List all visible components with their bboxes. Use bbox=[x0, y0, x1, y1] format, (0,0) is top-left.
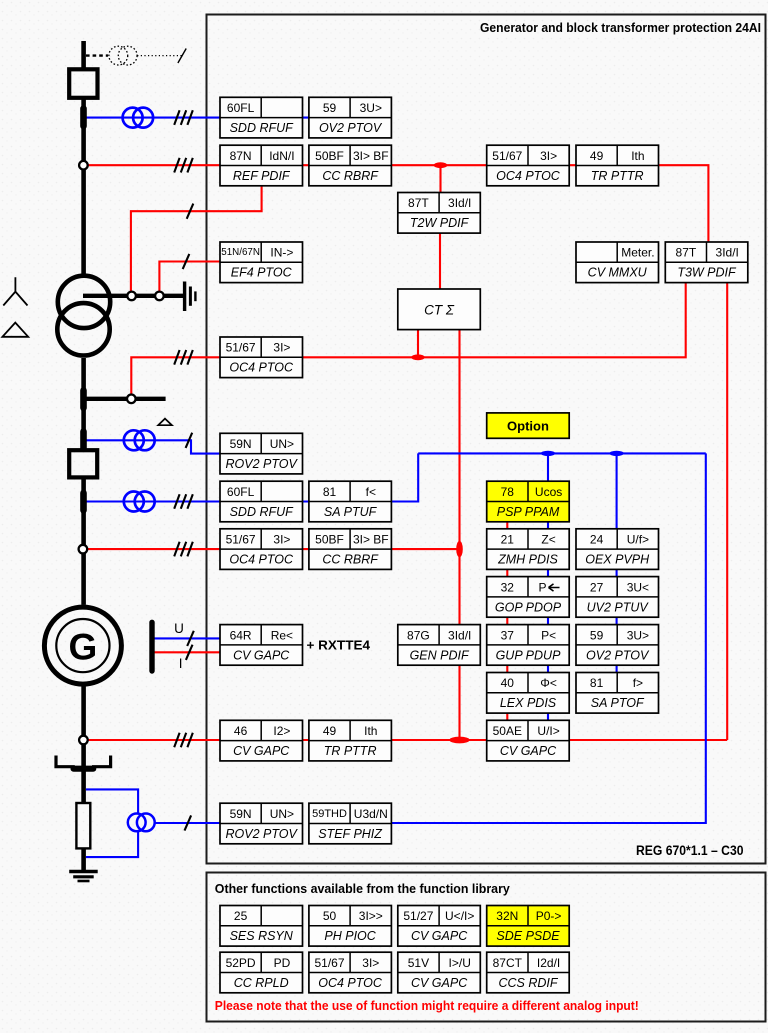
svg-text:50: 50 bbox=[323, 909, 337, 923]
svg-text:49: 49 bbox=[590, 149, 604, 163]
svg-text:TR PTTR: TR PTTR bbox=[591, 169, 644, 183]
svg-text:Z<: Z< bbox=[541, 533, 555, 547]
svg-text:UV2 PTUV: UV2 PTUV bbox=[587, 600, 650, 614]
svg-text:SES RSYN: SES RSYN bbox=[230, 929, 294, 943]
svg-text:U</I>: U</I> bbox=[445, 909, 474, 923]
function box 59 OV2 PTOV (top) bbox=[309, 97, 392, 138]
function box 50BF CC RBRF (top) bbox=[309, 145, 392, 186]
svg-text:CC RBRF: CC RBRF bbox=[322, 553, 379, 567]
svg-text:SA PTOF: SA PTOF bbox=[591, 696, 645, 710]
svg-text:3I>: 3I> bbox=[273, 341, 290, 355]
svg-text:IdN/I: IdN/I bbox=[269, 149, 294, 163]
svg-text:Generator and block transforme: Generator and block transformer protecti… bbox=[480, 21, 761, 35]
svg-text:OV2 PTOV: OV2 PTOV bbox=[586, 648, 650, 662]
svg-text:OC4 PTOC: OC4 PTOC bbox=[229, 553, 294, 567]
CT mark top bbox=[80, 109, 87, 126]
svg-text:EF4 PTOC: EF4 PTOC bbox=[231, 266, 293, 280]
junction 46 row bbox=[449, 737, 469, 744]
function box 37 GUP PDUP bbox=[487, 625, 570, 666]
svg-text:3I> BF: 3I> BF bbox=[353, 149, 389, 163]
svg-text:Ith: Ith bbox=[631, 149, 644, 163]
svg-text:CV GAPC: CV GAPC bbox=[233, 744, 290, 758]
svg-text:ROV2 PTOV: ROV2 PTOV bbox=[226, 827, 299, 841]
function box 50AE CV GAPC bbox=[487, 720, 570, 761]
function box 21 ZMH PDIS bbox=[487, 529, 570, 570]
svg-text:40: 40 bbox=[501, 676, 515, 690]
wire EF4 PTOC to neutral node bbox=[159, 262, 220, 293]
wire option horizontal bus bbox=[418, 452, 706, 454]
svg-text:78: 78 bbox=[501, 485, 515, 499]
wire T3W right output down bbox=[726, 281, 728, 741]
function box 81 SA PTOF bbox=[576, 673, 659, 714]
function box 32 GOP PDOP bbox=[487, 577, 570, 618]
svg-text:REG 670*1.1 – C30: REG 670*1.1 – C30 bbox=[636, 843, 744, 858]
phase mark 59N bbox=[186, 433, 193, 448]
junction 87N row bbox=[434, 162, 448, 168]
wye winding symbol bbox=[3, 277, 27, 305]
transformer T1 bbox=[57, 276, 110, 356]
function box 59 OV2 PTOV (gen) bbox=[576, 625, 659, 666]
disconnector slash bbox=[178, 49, 186, 64]
svg-text:27: 27 bbox=[590, 580, 604, 594]
svg-text:3U<: 3U< bbox=[627, 580, 649, 594]
wire SDD RFUF row to option bus bbox=[84, 453, 418, 501]
CT circles 59N bbox=[124, 430, 155, 450]
svg-text:51/67: 51/67 bbox=[492, 149, 522, 163]
svg-text:87N: 87N bbox=[230, 149, 252, 163]
function box 78 PSP PPAM bbox=[487, 481, 570, 522]
node neutral left bbox=[127, 292, 136, 301]
svg-text:CC RBRF: CC RBRF bbox=[322, 169, 379, 183]
function box 27 UV2 PTUV bbox=[576, 577, 659, 618]
svg-text:I: I bbox=[179, 656, 183, 671]
svg-text:46: 46 bbox=[234, 724, 248, 738]
dotted CT circles bbox=[109, 46, 137, 65]
svg-text:81: 81 bbox=[590, 676, 604, 690]
phase marks generator OC4 row bbox=[174, 542, 193, 557]
function box 49 TR PTTR (HV) bbox=[576, 145, 659, 186]
library title bbox=[215, 881, 511, 896]
function box 51/67 OC4 PTOC (HV) bbox=[487, 145, 570, 186]
svg-text:59: 59 bbox=[323, 101, 337, 115]
function box 87N REF PDIF bbox=[220, 145, 303, 186]
junction LV row bbox=[411, 354, 425, 360]
wire PSP PPAM column blue bbox=[547, 453, 549, 739]
svg-text:CC RPLD: CC RPLD bbox=[234, 976, 289, 990]
function box 40 LEX PDIS bbox=[487, 673, 570, 714]
junction option bus right bbox=[609, 451, 623, 456]
svg-text:GEN PDIF: GEN PDIF bbox=[410, 648, 470, 662]
function box 87G GEN PDIF bbox=[398, 625, 481, 666]
bus segment generator to node bbox=[81, 686, 86, 803]
svg-text:CT Σ: CT Σ bbox=[424, 302, 455, 317]
svg-text:T3W PDIF: T3W PDIF bbox=[677, 266, 737, 280]
function box 50 PH PIOC bbox=[309, 906, 392, 947]
svg-text:+ RXTTE4: + RXTTE4 bbox=[307, 638, 371, 652]
CT circles 60FL lower bbox=[124, 492, 155, 512]
svg-text:21: 21 bbox=[501, 533, 515, 547]
wire right column blue bbox=[616, 453, 618, 692]
option box bbox=[487, 413, 570, 438]
phase marks LV OC4 row bbox=[174, 350, 193, 365]
svg-text:I2>: I2> bbox=[273, 724, 290, 738]
wire option bus to STEF PHIZ bbox=[391, 453, 706, 823]
label P with reverse arrow bbox=[538, 580, 559, 594]
svg-text:59N: 59N bbox=[230, 807, 252, 821]
svg-text:OC4 PTOC: OC4 PTOC bbox=[318, 976, 383, 990]
svg-text:59THD: 59THD bbox=[312, 808, 347, 820]
svg-text:SDD RFUF: SDD RFUF bbox=[230, 505, 295, 519]
svg-text:59N: 59N bbox=[230, 437, 252, 451]
wire CT sigma right output down bbox=[458, 330, 460, 740]
neutral link bar bbox=[74, 766, 94, 772]
wire T2W PDIF to CT sigma bbox=[439, 232, 441, 290]
wire CT sigma left output bbox=[417, 330, 419, 358]
RXTTE4 bar bbox=[149, 622, 154, 671]
svg-text:87T: 87T bbox=[676, 246, 697, 260]
phase marks 46/49 row bbox=[174, 733, 193, 748]
svg-text:REF PDIF: REF PDIF bbox=[233, 169, 291, 183]
wire neutral VT to ROV2 PTOV bbox=[155, 822, 220, 824]
svg-text:I>/U: I>/U bbox=[449, 956, 471, 970]
svg-text:59: 59 bbox=[590, 628, 604, 642]
svg-text:49: 49 bbox=[323, 724, 337, 738]
svg-text:PSP PPAM: PSP PPAM bbox=[497, 505, 560, 519]
svg-text:51/67: 51/67 bbox=[226, 341, 256, 355]
svg-text:52PD: 52PD bbox=[226, 956, 256, 970]
function library frame bbox=[207, 873, 766, 1022]
wire 59N ROV2 PTOV row bbox=[84, 440, 230, 453]
svg-text:CV GAPC: CV GAPC bbox=[500, 744, 557, 758]
phase mark I input bbox=[186, 645, 193, 660]
phase marks 60FL top bbox=[174, 110, 193, 125]
transformer LV bar bbox=[83, 397, 166, 401]
svg-text:OC4 PTOC: OC4 PTOC bbox=[229, 361, 294, 375]
wire 64R current input bbox=[152, 651, 220, 653]
label + RXTTE4 bbox=[307, 638, 371, 652]
svg-text:OEX PVPH: OEX PVPH bbox=[585, 553, 650, 567]
function box 49 TR PTTR (gen) bbox=[309, 720, 392, 761]
svg-text:3I> BF: 3I> BF bbox=[353, 533, 389, 547]
svg-text:87T: 87T bbox=[408, 196, 429, 210]
svg-text:Φ<: Φ< bbox=[540, 676, 557, 690]
svg-text:51/67: 51/67 bbox=[226, 533, 256, 547]
svg-text:51V: 51V bbox=[408, 956, 429, 970]
neutral ground bbox=[185, 282, 196, 312]
svg-text:CV GAPC: CV GAPC bbox=[411, 976, 468, 990]
bus segment top bbox=[81, 41, 86, 274]
svg-text:87CT: 87CT bbox=[493, 956, 523, 970]
breaker Q2 bbox=[69, 450, 97, 477]
function box 60FL SDD RFUF (gen) bbox=[220, 481, 303, 522]
svg-text:UN>: UN> bbox=[270, 437, 294, 451]
svg-text:81: 81 bbox=[323, 485, 337, 499]
svg-text:3U>: 3U> bbox=[360, 101, 382, 115]
CT circles neutral VT bbox=[128, 814, 155, 832]
svg-text:50AE: 50AE bbox=[493, 724, 522, 738]
svg-text:51/27: 51/27 bbox=[403, 909, 433, 923]
function box 51/27 CV GAPC bbox=[398, 906, 481, 947]
function box CV MMXU bbox=[576, 242, 659, 283]
svg-text:3I>: 3I> bbox=[362, 956, 379, 970]
svg-text:60FL: 60FL bbox=[227, 101, 255, 115]
svg-text:U: U bbox=[174, 621, 184, 636]
CT mark LV bbox=[80, 390, 87, 408]
generator G1 bbox=[44, 607, 121, 684]
CT mark 59N bbox=[80, 432, 87, 449]
function box 51/67 OC4 PTOC (gen) bbox=[220, 529, 303, 570]
ground symbol bottom bbox=[69, 872, 98, 882]
function box 59THD STEF PHIZ bbox=[309, 803, 392, 844]
svg-text:Please note that the use of fu: Please note that the use of function mig… bbox=[215, 999, 639, 1013]
svg-text:3Id/I: 3Id/I bbox=[448, 196, 471, 210]
transformer neutral bar bbox=[83, 294, 184, 298]
svg-text:CCS RDIF: CCS RDIF bbox=[498, 976, 558, 990]
svg-text:3Id/I: 3Id/I bbox=[448, 628, 471, 642]
wire transformer LV to OC4 PTOC and T3W bbox=[131, 281, 685, 396]
bus segment middle bbox=[81, 358, 86, 605]
svg-text:32: 32 bbox=[501, 580, 515, 594]
function box 32N SDE PSDE bbox=[487, 906, 570, 947]
svg-text:I2d/I: I2d/I bbox=[537, 956, 560, 970]
svg-text:25: 25 bbox=[234, 909, 248, 923]
svg-text:87G: 87G bbox=[407, 628, 430, 642]
phase mark U input bbox=[187, 631, 194, 646]
svg-text:T2W PDIF: T2W PDIF bbox=[410, 216, 470, 230]
svg-text:60FL: 60FL bbox=[227, 485, 255, 499]
function box 59N ROV2 PTOV (neutral) bbox=[220, 803, 303, 844]
dotted wire to disconnector bbox=[137, 55, 182, 57]
junction generator OC4 row bbox=[456, 541, 463, 557]
wire generator CT row 46/49 bbox=[83, 739, 727, 741]
svg-text:IN->: IN-> bbox=[270, 246, 293, 260]
svg-text:3U>: 3U> bbox=[627, 628, 649, 642]
svg-text:3I>: 3I> bbox=[273, 533, 290, 547]
function box 46 CV GAPC bbox=[220, 720, 303, 761]
function box 87CT CCS RDIF bbox=[487, 952, 570, 993]
node LV tap bbox=[127, 395, 136, 404]
svg-text:ROV2 PTOV: ROV2 PTOV bbox=[226, 457, 299, 471]
function box 25 SES RSYN bbox=[220, 906, 303, 947]
label I bbox=[179, 656, 183, 671]
function box 50BF CC RBRF (gen) bbox=[309, 529, 392, 570]
svg-text:ZMH PDIS: ZMH PDIS bbox=[497, 553, 558, 567]
svg-text:LEX PDIS: LEX PDIS bbox=[500, 696, 557, 710]
phase marks 60FL lower bbox=[174, 494, 193, 509]
wire neutral VT loop bbox=[86, 789, 138, 857]
svg-text:P: P bbox=[538, 580, 546, 594]
delta winding symbol bbox=[2, 323, 28, 337]
svg-text:24: 24 bbox=[590, 533, 604, 547]
wire PSP PPAM column red bbox=[506, 520, 508, 739]
label U bbox=[174, 621, 184, 636]
library note bbox=[215, 999, 639, 1013]
function box 51/67 OC4 PTOC (lib) bbox=[309, 952, 392, 993]
svg-text:51/67: 51/67 bbox=[314, 956, 344, 970]
breaker Q1 bbox=[69, 69, 97, 98]
svg-text:64R: 64R bbox=[230, 628, 252, 642]
svg-text:32N: 32N bbox=[496, 909, 518, 923]
function box 60FL SDD RFUF (top) bbox=[220, 97, 303, 138]
svg-text:51N/67N: 51N/67N bbox=[221, 247, 260, 258]
CT circles 60FL top bbox=[123, 108, 154, 128]
phase mark EF4 PTOC bbox=[183, 254, 190, 269]
function box 87T T3W PDIF bbox=[665, 242, 748, 283]
svg-text:OV2 PTOV: OV2 PTOV bbox=[319, 121, 383, 135]
function box 87T T2W PDIF bbox=[398, 193, 481, 234]
svg-text:Option: Option bbox=[507, 419, 549, 434]
svg-text:f>: f> bbox=[633, 676, 643, 690]
svg-text:GUP PDUP: GUP PDUP bbox=[496, 648, 561, 662]
dashed branch wire bbox=[86, 54, 108, 56]
svg-text:UN>: UN> bbox=[270, 807, 294, 821]
svg-text:TR PTTR: TR PTTR bbox=[324, 744, 377, 758]
node 87N tap bbox=[79, 161, 88, 170]
svg-text:OC4 PTOC: OC4 PTOC bbox=[496, 169, 561, 183]
svg-text:SDE PSDE: SDE PSDE bbox=[496, 929, 560, 943]
function box 51/67 OC4 PTOC (LV) bbox=[220, 337, 303, 378]
svg-text:f<: f< bbox=[366, 485, 376, 499]
svg-text:GOP PDOP: GOP PDOP bbox=[495, 600, 562, 614]
label REG 670 bbox=[636, 843, 744, 858]
CT summation box bbox=[398, 289, 481, 330]
junction option bus left bbox=[541, 451, 555, 456]
phase mark neutral VT bbox=[185, 815, 192, 830]
bus segment resistor to ground bbox=[81, 848, 86, 871]
svg-text:U/f>: U/f> bbox=[627, 533, 649, 547]
svg-text:U/I>: U/I> bbox=[537, 724, 559, 738]
svg-text:3I>>: 3I>> bbox=[359, 909, 383, 923]
svg-text:Other functions available from: Other functions available from the funct… bbox=[215, 881, 511, 896]
function box 51N/67N EF4 PTOC bbox=[220, 242, 303, 283]
grounding resistor R1 bbox=[76, 803, 90, 848]
svg-text:PH PIOC: PH PIOC bbox=[324, 929, 376, 943]
node generator OC4 tap bbox=[79, 545, 88, 554]
svg-text:G: G bbox=[69, 627, 98, 668]
svg-text:SDD RFUF: SDD RFUF bbox=[230, 121, 295, 135]
node neutral right bbox=[155, 292, 164, 301]
wire junction to T2W PDIF bbox=[439, 165, 441, 192]
function box 52PD CC RPLD bbox=[220, 952, 303, 993]
wire generator OC4 row bbox=[83, 548, 460, 550]
svg-text:Ith: Ith bbox=[364, 724, 377, 738]
svg-text:CV GAPC: CV GAPC bbox=[411, 929, 468, 943]
wire 64R voltage input bbox=[152, 637, 220, 639]
svg-text:P0->: P0-> bbox=[536, 909, 562, 923]
function box 24 OEX PVPH bbox=[576, 529, 659, 570]
CT mark 60FL lower bbox=[80, 493, 87, 510]
node 46 tap bbox=[79, 736, 88, 745]
svg-text:CV GAPC: CV GAPC bbox=[233, 648, 290, 662]
function box 81 SA PTUF bbox=[309, 481, 392, 522]
svg-text:3I>: 3I> bbox=[540, 149, 557, 163]
phase mark REF PDIF drop bbox=[187, 204, 194, 219]
wire 87N/50BF/OC4/TR PTTR row to T3W PDIF bbox=[83, 165, 708, 242]
svg-text:37: 37 bbox=[501, 628, 515, 642]
svg-text:CV MMXU: CV MMXU bbox=[588, 266, 648, 280]
small delta symbol bbox=[158, 419, 172, 426]
svg-text:P<: P< bbox=[541, 628, 556, 642]
main diagram frame bbox=[207, 15, 766, 864]
function box 64R CV GAPC bbox=[220, 625, 303, 666]
withdrawable brackets bbox=[56, 756, 111, 767]
phase marks 87N row bbox=[174, 158, 193, 173]
svg-text:3Id/I: 3Id/I bbox=[716, 246, 739, 260]
svg-text:PD: PD bbox=[274, 956, 291, 970]
svg-text:Meter.: Meter. bbox=[621, 246, 654, 260]
svg-text:STEF PHIZ: STEF PHIZ bbox=[318, 827, 382, 841]
svg-text:Re<: Re< bbox=[271, 628, 293, 642]
title bbox=[480, 21, 761, 35]
function box 51V CV GAPC bbox=[398, 952, 481, 993]
svg-text:50BF: 50BF bbox=[315, 149, 344, 163]
svg-text:U3d/N: U3d/N bbox=[354, 807, 388, 821]
svg-text:Ucos: Ucos bbox=[535, 485, 562, 499]
svg-text:SA PTUF: SA PTUF bbox=[324, 505, 378, 519]
wire REF PDIF to transformer neutral bbox=[131, 186, 262, 292]
wire 60FL SDD RFUF top row bbox=[84, 117, 391, 119]
svg-text:50BF: 50BF bbox=[315, 533, 344, 547]
function box 59N ROV2 PTOV (gen) bbox=[220, 433, 303, 474]
